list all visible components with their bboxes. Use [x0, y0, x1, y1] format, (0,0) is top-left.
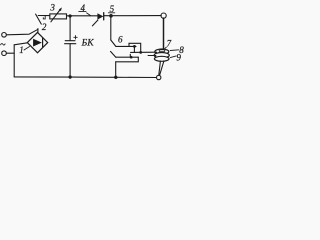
top rail left — [38, 15, 50, 17]
svg-text:3: 3 — [49, 3, 55, 13]
core rod lower left line — [159, 61, 161, 75]
armature return bracket — [116, 57, 139, 62]
label 7 pointer — [164, 47, 167, 50]
top rail to diode — [67, 15, 98, 17]
coil 8 ring 3 — [154, 56, 169, 61]
armature rod 7 upper — [163, 18, 165, 52]
coil 8 ring 2 — [154, 53, 169, 58]
wire from upper terminal to bridge top — [6, 29, 38, 35]
rectifier bridge 1 (diamond) — [27, 32, 47, 52]
coil second lead stub — [148, 55, 156, 57]
coil inner hole — [159, 50, 165, 52]
thyristor 4 triangle — [97, 13, 103, 19]
input terminal (upper AC) — [2, 33, 7, 38]
capacitor BK bottom plate — [65, 43, 76, 45]
capacitor lower lead — [69, 44, 71, 77]
switch 2 jaw contact — [43, 16, 45, 19]
wire to coil — [131, 51, 157, 53]
plus polarity mark — [74, 36, 77, 39]
thyristor cathode bar — [103, 13, 105, 20]
contact 6 upper arm — [116, 45, 136, 47]
contact 6 lower arm diagonal — [111, 51, 116, 57]
junction 5 dot — [109, 14, 113, 18]
input terminal (lower AC) — [2, 51, 7, 56]
wire junction5 down to contacts — [110, 16, 112, 40]
link upper arm to coil wire — [133, 46, 135, 52]
svg-text:1: 1 — [19, 45, 24, 55]
upper bridge wire — [129, 43, 141, 52]
contact 6 upper arm diagonal — [111, 40, 116, 46]
junction dot bottom rail — [114, 76, 117, 79]
wire bridge top to switch post — [37, 29, 39, 33]
label BK — [81, 39, 95, 49]
coil 8 ring 1 — [155, 49, 169, 54]
label 3 — [49, 3, 55, 13]
svg-text:2: 2 — [42, 22, 47, 32]
label 6 — [118, 34, 123, 44]
pointer line of label 1 — [24, 47, 30, 51]
capacitor BK top plate — [65, 40, 75, 42]
wire contacts to bottom rail — [115, 62, 117, 78]
label 9 — [176, 52, 181, 62]
wire from lower terminal — [6, 52, 14, 54]
junction dot coil wire — [139, 51, 142, 54]
thyristor gate lead — [92, 20, 98, 26]
upper contact stub — [128, 43, 130, 46]
junction dot on upper arm — [133, 45, 136, 48]
switch 2 blade — [36, 14, 42, 24]
svg-text:БК: БК — [81, 39, 95, 49]
junction dot lower arm — [130, 56, 133, 59]
junction dot capacitor bottom — [68, 75, 71, 78]
label 5 underline — [108, 12, 114, 14]
wire to bridge left vertex — [14, 43, 27, 45]
AC tilde symbol — [1, 44, 6, 45]
svg-text:9: 9 — [176, 52, 181, 62]
label 4 — [81, 3, 86, 13]
label 5 — [110, 4, 115, 14]
label 9 pointer — [170, 56, 176, 58]
core rod lower right line — [160, 61, 164, 75]
rheostat 3 body — [50, 14, 67, 19]
label 1 — [19, 45, 24, 55]
svg-text:6: 6 — [118, 34, 123, 44]
capacitor upper lead — [69, 16, 71, 40]
label 8 pointer — [170, 49, 179, 52]
top rail right — [104, 15, 161, 17]
wire left vertical — [13, 45, 15, 77]
terminal circle bottom — [157, 75, 161, 79]
svg-text:7: 7 — [167, 39, 172, 49]
contact 6 lower arm — [116, 56, 139, 58]
label 4 underline — [79, 11, 86, 13]
label 7 — [167, 39, 172, 49]
diode inside bridge — [33, 39, 42, 47]
lower contact stub — [129, 54, 131, 57]
label 2 — [42, 22, 47, 32]
junction node (capacitor tap) — [69, 14, 72, 17]
bottom rail — [14, 76, 156, 79]
terminal circle top right — [161, 13, 166, 18]
rheostat arrow — [51, 9, 61, 22]
label 4 pointer — [87, 13, 91, 16]
label 8 — [179, 45, 184, 55]
